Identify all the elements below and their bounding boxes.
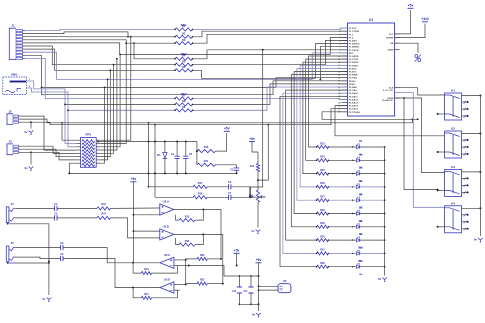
svg-text:AVREF: AVREF: [386, 37, 394, 40]
svg-text:R21: R21: [144, 293, 149, 296]
wire J5 sleeve: [14, 262, 50, 264]
resistor R30: [316, 235, 329, 241]
svg-text:K2: K2: [451, 127, 455, 131]
wire AVREF to +3v3: [395, 24, 425, 38]
svg-text:R17: R17: [198, 182, 203, 185]
svg-text:J1: J1: [11, 24, 15, 28]
wire U2B plus input: [133, 230, 160, 232]
capacitor C8: [16, 242, 133, 263]
svg-text:U1: U1: [369, 18, 373, 22]
wire vertical drop A: [154, 124, 156, 198]
svg-text:P2.1/A9: P2.1/A9: [349, 89, 358, 92]
svg-text:R24: R24: [320, 156, 325, 159]
svg-text:R15: R15: [185, 215, 190, 218]
svg-text:R31: R31: [320, 249, 325, 252]
wire LED D2 to bus: [360, 146, 386, 148]
resistor R21 feedback: [133, 288, 177, 300]
svg-text:P2.3/A11: P2.3/A11: [349, 95, 359, 98]
wire U1 to relay K1: [395, 88, 445, 95]
wire U2B out down: [203, 234, 224, 284]
wire spur to RN2 row1: [133, 42, 175, 59]
wire RN2 row1 to U1 pin8: [193, 49, 348, 59]
wire LED ground bus: [384, 147, 386, 276]
svg-text:R26: R26: [320, 182, 325, 185]
svg-text:0v: 0v: [474, 238, 478, 242]
microphone MK1: [3, 73, 27, 95]
svg-text:RST: RST: [349, 53, 354, 55]
svg-text:0v: 0v: [24, 166, 28, 170]
op-amp U2:D: [160, 278, 174, 293]
wire J3 pin1 to RP1: [21, 146, 76, 153]
ground LED bus: [378, 277, 387, 282]
wire U1 to LED row 1: [309, 56, 348, 147]
svg-text:J5: J5: [10, 241, 14, 245]
LED D4: [357, 167, 364, 183]
ground below J3: [24, 166, 33, 171]
svg-text:P3.7/RD: P3.7/RD: [349, 78, 358, 80]
potentiometer RV1: [249, 180, 266, 202]
relay K4: [437, 201, 482, 233]
wire R29 to LED: [328, 226, 356, 227]
wire J2 ground stub: [30, 121, 32, 128]
svg-text:+5v: +5v: [408, 4, 414, 8]
resistor R11: [197, 160, 216, 167]
wire J3 pin3 to RP1: [21, 151, 76, 164]
wire J1 pin7 line to RN2 row3: [25, 49, 175, 70]
jack connector J4: [6, 202, 16, 225]
svg-text:R30: R30: [320, 235, 325, 238]
resistor R26: [316, 182, 329, 188]
wire U2D plus stub: [174, 284, 197, 286]
wire U2C output node: [132, 262, 160, 264]
svg-text:P3.0/RXD: P3.0/RXD: [349, 56, 359, 58]
wire J2 pin1 to RP1: [21, 116, 76, 150]
svg-text:U2:A: U2:A: [163, 200, 169, 204]
wire bottom rail: [69, 172, 236, 174]
wire R12 node to rail: [258, 125, 268, 180]
component U3: [258, 279, 291, 293]
diode D1: [157, 142, 167, 174]
svg-text:R27: R27: [320, 196, 325, 199]
resistor R15 feedback: [176, 210, 204, 222]
wire rail tee to RP1 pin1: [61, 122, 76, 140]
svg-text:U3: U3: [283, 279, 287, 283]
wire RP1 to bottom rail: [68, 163, 76, 174]
wire RP1 pin15 tap: [100, 79, 108, 160]
capacitor C5: [16, 212, 97, 220]
svg-text:R12: R12: [250, 165, 255, 168]
svg-text:R23: R23: [320, 142, 325, 145]
svg-text:P1.7/SCK: P1.7/SCK: [349, 50, 359, 52]
LED D5: [357, 180, 364, 196]
svg-text:P2.7/A15: P2.7/A15: [349, 108, 359, 111]
svg-text:P2.4/A12: P2.4/A12: [349, 98, 359, 101]
resistor R31: [316, 249, 329, 255]
power +5v mid-right: [249, 137, 258, 152]
svg-text:P3.3/INT1: P3.3/INT1: [349, 65, 360, 67]
wire J1 pin2 line: [25, 32, 129, 38]
wire U1 to LED row 9: [283, 93, 348, 253]
svg-text:X40M: X40M: [388, 48, 394, 51]
wire U1 to LED row 6: [294, 72, 347, 214]
wire vertical drop B: [148, 122, 150, 187]
svg-text:+5v: +5v: [234, 249, 240, 253]
svg-text:P3.1/TXD: P3.1/TXD: [349, 59, 359, 61]
svg-text:R28: R28: [320, 209, 325, 212]
wire R13 to U2A: [110, 207, 159, 209]
wire stair to U1 pin7: [320, 47, 348, 81]
svg-text:MK1: MK1: [11, 73, 18, 77]
wire J1 pin9 line to U1 pin18: [25, 55, 348, 94]
svg-text:P1.2: P1.2: [349, 34, 354, 36]
resistor R12: [250, 152, 260, 181]
wire relay K3 aux: [403, 97, 439, 191]
wire J1 pin3 line to U1 pin2: [25, 31, 348, 37]
wire R26 to LED: [328, 186, 356, 187]
resistor pack RP1: [76, 133, 100, 168]
wire R24 to LED: [328, 160, 356, 161]
svg-text:0v: 0v: [251, 229, 255, 233]
ground below J2: [24, 130, 33, 135]
svg-text:P1.1/T2EX: P1.1/T2EX: [349, 31, 360, 33]
wire pot net down: [249, 50, 263, 198]
resistor group RN2: [174, 52, 193, 72]
wire VCC to +5v: [395, 10, 411, 34]
wire RN3 row1 out: [193, 98, 348, 101]
wire LED D11 to bus: [360, 266, 386, 268]
power +5v mid-left: [224, 127, 230, 132]
capacitor C10: [232, 276, 242, 304]
wire U2D minus stub: [174, 289, 180, 291]
svg-text:P3.2/INT0: P3.2/INT0: [349, 62, 360, 64]
wire RP1 pin12 tap: [100, 58, 118, 150]
wire J1 pin8 line to U1 pin9: [25, 52, 348, 79]
wire RP1 pin16 tap: [100, 87, 105, 164]
relay K2: [437, 127, 482, 159]
wire U1 to LED row 8: [286, 90, 348, 240]
wire to cap ladder: [189, 266, 240, 277]
resistor R13: [97, 203, 110, 210]
wire RP1 pin14 tap: [100, 69, 111, 156]
LED D6: [357, 193, 364, 209]
wire LED D4 to bus: [360, 173, 386, 175]
svg-text:RP1: RP1: [85, 133, 91, 137]
wire U1 to relay K3: [395, 98, 445, 173]
junction dots rails: [148, 141, 187, 175]
relay K1: [437, 89, 482, 121]
LED D11: [357, 260, 364, 276]
resistor R28: [316, 209, 329, 215]
resistor R32: [316, 262, 329, 268]
svg-text:P2.0/A8: P2.0/A8: [349, 86, 358, 89]
svg-text:EA: EA: [390, 42, 393, 45]
svg-text:0v: 0v: [42, 297, 46, 301]
resistor R10: [197, 146, 216, 153]
resistor R22: [197, 279, 223, 286]
wire U2C plus stub: [174, 259, 187, 261]
op-amp U2:C: [160, 253, 174, 268]
svg-text:D11: D11: [358, 260, 363, 263]
wire R27 to LED: [328, 200, 356, 201]
svg-text:R25: R25: [320, 169, 325, 172]
op-amp U2:A: [160, 200, 174, 215]
svg-text:R22: R22: [200, 279, 205, 282]
svg-text:R19: R19: [144, 268, 149, 271]
jumper JP1: [415, 55, 422, 62]
microcontroller U1: [338, 18, 399, 116]
wire R14 to U2B: [110, 218, 159, 238]
resistor R27: [316, 196, 329, 202]
svg-text:R14: R14: [102, 213, 107, 216]
svg-text:R18: R18: [198, 192, 203, 195]
svg-text:P3.5/T1: P3.5/T1: [349, 72, 357, 74]
resistor R25: [316, 169, 329, 175]
svg-text:0v: 0v: [378, 277, 382, 281]
wire U1 to LED row 3: [303, 62, 348, 173]
svg-text:0v: 0v: [24, 130, 28, 134]
wire LED D10 to bus: [360, 253, 386, 255]
wire RN3 row2 line to U1 pin19: [65, 84, 348, 105]
connector J2: [7, 109, 21, 124]
op-amp U2:B: [160, 225, 174, 240]
resistor R20: [186, 254, 221, 261]
wire J3 pin2 to RP1: [21, 149, 76, 157]
svg-text:+5v: +5v: [256, 258, 262, 262]
LED D9: [357, 233, 364, 249]
power +5v bottom: [234, 249, 240, 267]
svg-text:R32: R32: [320, 262, 325, 265]
ground ladder: [252, 313, 261, 318]
resistor R16 feedback: [176, 234, 204, 246]
resistor R17: [148, 182, 208, 189]
svg-text:XTAL2: XTAL2: [349, 80, 357, 83]
wire MK1 pin1 to RP1: [26, 79, 76, 144]
power +5v top: [408, 4, 414, 9]
svg-text:P3.4/T0: P3.4/T0: [349, 67, 357, 70]
resistor R14: [97, 213, 110, 220]
svg-text:R10: R10: [204, 146, 209, 149]
svg-text:+3v3: +3v3: [421, 17, 429, 21]
connector J3: [7, 139, 21, 154]
svg-text:K1: K1: [451, 89, 455, 93]
wire U2A output: [174, 209, 205, 211]
wire LED D7 to bus: [360, 213, 386, 215]
capacitor C7: [207, 192, 252, 200]
svg-text:+5v: +5v: [249, 137, 255, 141]
svg-text:P1.6/MISO: P1.6/MISO: [349, 47, 360, 49]
wire J1 pin4 line to U1 pin3: [25, 34, 348, 43]
svg-text:P1.3: P1.3: [349, 37, 354, 39]
LED D3: [357, 153, 364, 169]
svg-text:+5v: +5v: [224, 127, 230, 131]
svg-text:K4: K4: [451, 201, 455, 205]
svg-text:C10: C10: [232, 291, 237, 293]
svg-text:U2:C: U2:C: [164, 253, 170, 257]
capacitor C9: [16, 253, 133, 288]
wire top rail: [97, 141, 197, 143]
wire U2C minus stub: [174, 265, 190, 267]
connector J1: [9, 24, 25, 60]
svg-text:XTAL1: XTAL1: [349, 83, 357, 86]
svg-text:P_U1_US: P_U1_US: [383, 90, 393, 92]
wire caps to pot wiper: [251, 196, 266, 198]
resistor R19 feedback: [133, 263, 177, 275]
resistor R23: [316, 142, 329, 148]
wire EA to jumper: [395, 43, 418, 53]
wire RV1 to ground: [257, 202, 259, 227]
ground below RV1: [251, 229, 260, 234]
wire U1 to LED row 2: [306, 59, 348, 160]
wire R23 to LED: [328, 146, 356, 147]
svg-text:P1.0/T2: P1.0/T2: [349, 28, 357, 30]
svg-text:+5v: +5v: [131, 177, 137, 181]
wire rail drop to R10 R11: [196, 142, 198, 165]
capacitor C6: [207, 181, 251, 197]
wire U2A plus input: [133, 214, 160, 216]
resistor group RN3: [174, 92, 193, 112]
capacitor C2: [183, 142, 193, 174]
svg-text:P2.6/A14: P2.6/A14: [349, 105, 359, 108]
wire U1 pin28 under loop: [322, 112, 419, 120]
ground jack bus: [42, 297, 51, 302]
svg-text:P1.5/MOSI: P1.5/MOSI: [349, 44, 360, 46]
wire RP1 pin9 tap: [100, 36, 132, 140]
svg-text:J2: J2: [8, 109, 12, 113]
svg-text:C11: C11: [244, 291, 249, 293]
wire J1 pin5 line to U1 pin4: [25, 37, 348, 54]
wire LED D8 to bus: [360, 226, 386, 228]
svg-text:0v: 0v: [252, 313, 256, 317]
wire U1 to LED row 5: [297, 68, 348, 200]
power +5v ladder: [256, 258, 262, 277]
resistor R18: [155, 192, 207, 199]
wire RP1 pin11 tap: [100, 54, 121, 147]
svg-text:Rx43/S+D: Rx43/S+D: [382, 99, 393, 102]
wire LED D5 to bus: [360, 186, 386, 188]
wire relay bus: [479, 96, 481, 237]
wire R10 to +5v: [216, 133, 227, 151]
svg-text:R11: R11: [204, 160, 209, 163]
wire RN2 row3 to U1 pin6: [193, 44, 348, 79]
wire U2D output node: [132, 287, 160, 289]
wire jack ground bus: [14, 224, 50, 295]
svg-text:R20: R20: [200, 254, 205, 257]
ground relay bus: [474, 238, 483, 243]
wire U1 to LED row 7: [291, 75, 347, 227]
wire U1 to relay K2: [335, 106, 445, 136]
svg-text:J4: J4: [10, 202, 14, 206]
wire J1 pin10 line to RN3 row1: [25, 58, 175, 98]
wire ladder to ground: [258, 304, 260, 311]
capacitor C4: [16, 203, 97, 211]
wire line87 to U1 pin17: [41, 78, 348, 89]
relay K3: [437, 165, 482, 197]
wire R30 to LED: [328, 239, 356, 240]
wire U1 to LED row 10: [280, 96, 348, 266]
LED D10: [357, 247, 364, 263]
resistor group RN1: [174, 23, 193, 45]
wire MK1 pin2 to RP1: [26, 86, 76, 147]
wire LED D9 to bus: [360, 239, 386, 241]
svg-text:K3: K3: [451, 165, 455, 169]
svg-text:R29: R29: [320, 222, 325, 225]
svg-text:P2.2/A10: P2.2/A10: [349, 92, 359, 95]
wire R32 to LED: [328, 266, 356, 267]
wire U2A out down: [203, 210, 222, 260]
wire U2C link down: [185, 260, 187, 285]
wire LED D3 to bus: [360, 159, 386, 161]
wire J2 pin3 long rail to U1 pin27: [21, 109, 348, 126]
resistor R29: [316, 222, 329, 228]
wire J1 pin1 line to U1 pin1: [25, 28, 348, 30]
wire J1 pin6 line to RN2 row2: [25, 46, 175, 65]
wires ladder rails: [239, 275, 260, 305]
svg-text:VCC: VCC: [389, 34, 394, 36]
svg-text:U2:D: U2:D: [164, 278, 170, 282]
LED D2: [357, 140, 364, 156]
capacitor C3: [216, 165, 240, 175]
jack connector J5: [6, 241, 16, 264]
resistor R24: [316, 156, 329, 162]
svg-text:D10: D10: [358, 247, 363, 250]
svg-text:P1.4/SS: P1.4/SS: [349, 40, 358, 43]
wire LED D6 to bus: [360, 199, 386, 201]
LED D7: [357, 207, 364, 223]
LED D8: [357, 220, 364, 236]
svg-text:P2.5/A13: P2.5/A13: [349, 102, 359, 105]
wire R28 to LED: [328, 213, 356, 214]
power +5v opamp rail: [130, 177, 136, 263]
wire RN2 row2 to U1 pin5: [193, 41, 348, 65]
wire RP1 pin13 tap: [100, 64, 114, 154]
wire R25 to LED: [328, 173, 356, 174]
wire RN3 row3 line to U1 pin20: [68, 87, 348, 110]
wire RP1 pin10 tap: [100, 42, 127, 143]
svg-text:J3: J3: [8, 139, 12, 143]
wire U1 to relay K4: [395, 93, 445, 208]
svg-text:R16: R16: [185, 240, 190, 243]
svg-text:R13: R13: [102, 203, 107, 206]
svg-text:U2:B: U2:B: [163, 225, 169, 229]
wire J2 pin2 long rail: [21, 118, 413, 122]
wire U1 to LED row 4: [300, 65, 347, 187]
wire U2B output: [174, 233, 205, 235]
wire R31 to LED: [328, 253, 356, 254]
power +3v3: [421, 17, 429, 22]
svg-text:P2.7/PSEN: P2.7/PSEN: [349, 112, 360, 114]
capacitor C11: [244, 276, 254, 304]
svg-text:P3.6/WR: P3.6/WR: [349, 75, 358, 77]
capacitor C1: [171, 142, 180, 174]
